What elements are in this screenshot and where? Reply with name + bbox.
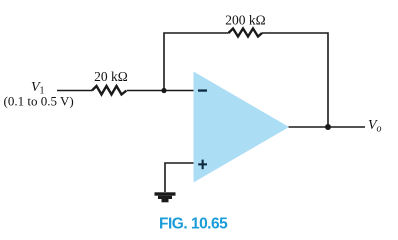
svg-text:200 kΩ: 200 kΩ [225,13,265,28]
svg-text:o: o [377,124,382,135]
svg-text:FIG. 10.65: FIG. 10.65 [159,216,228,233]
svg-text:20 kΩ: 20 kΩ [94,69,128,84]
svg-text:(0.1 to 0.5 V): (0.1 to 0.5 V) [4,94,74,109]
